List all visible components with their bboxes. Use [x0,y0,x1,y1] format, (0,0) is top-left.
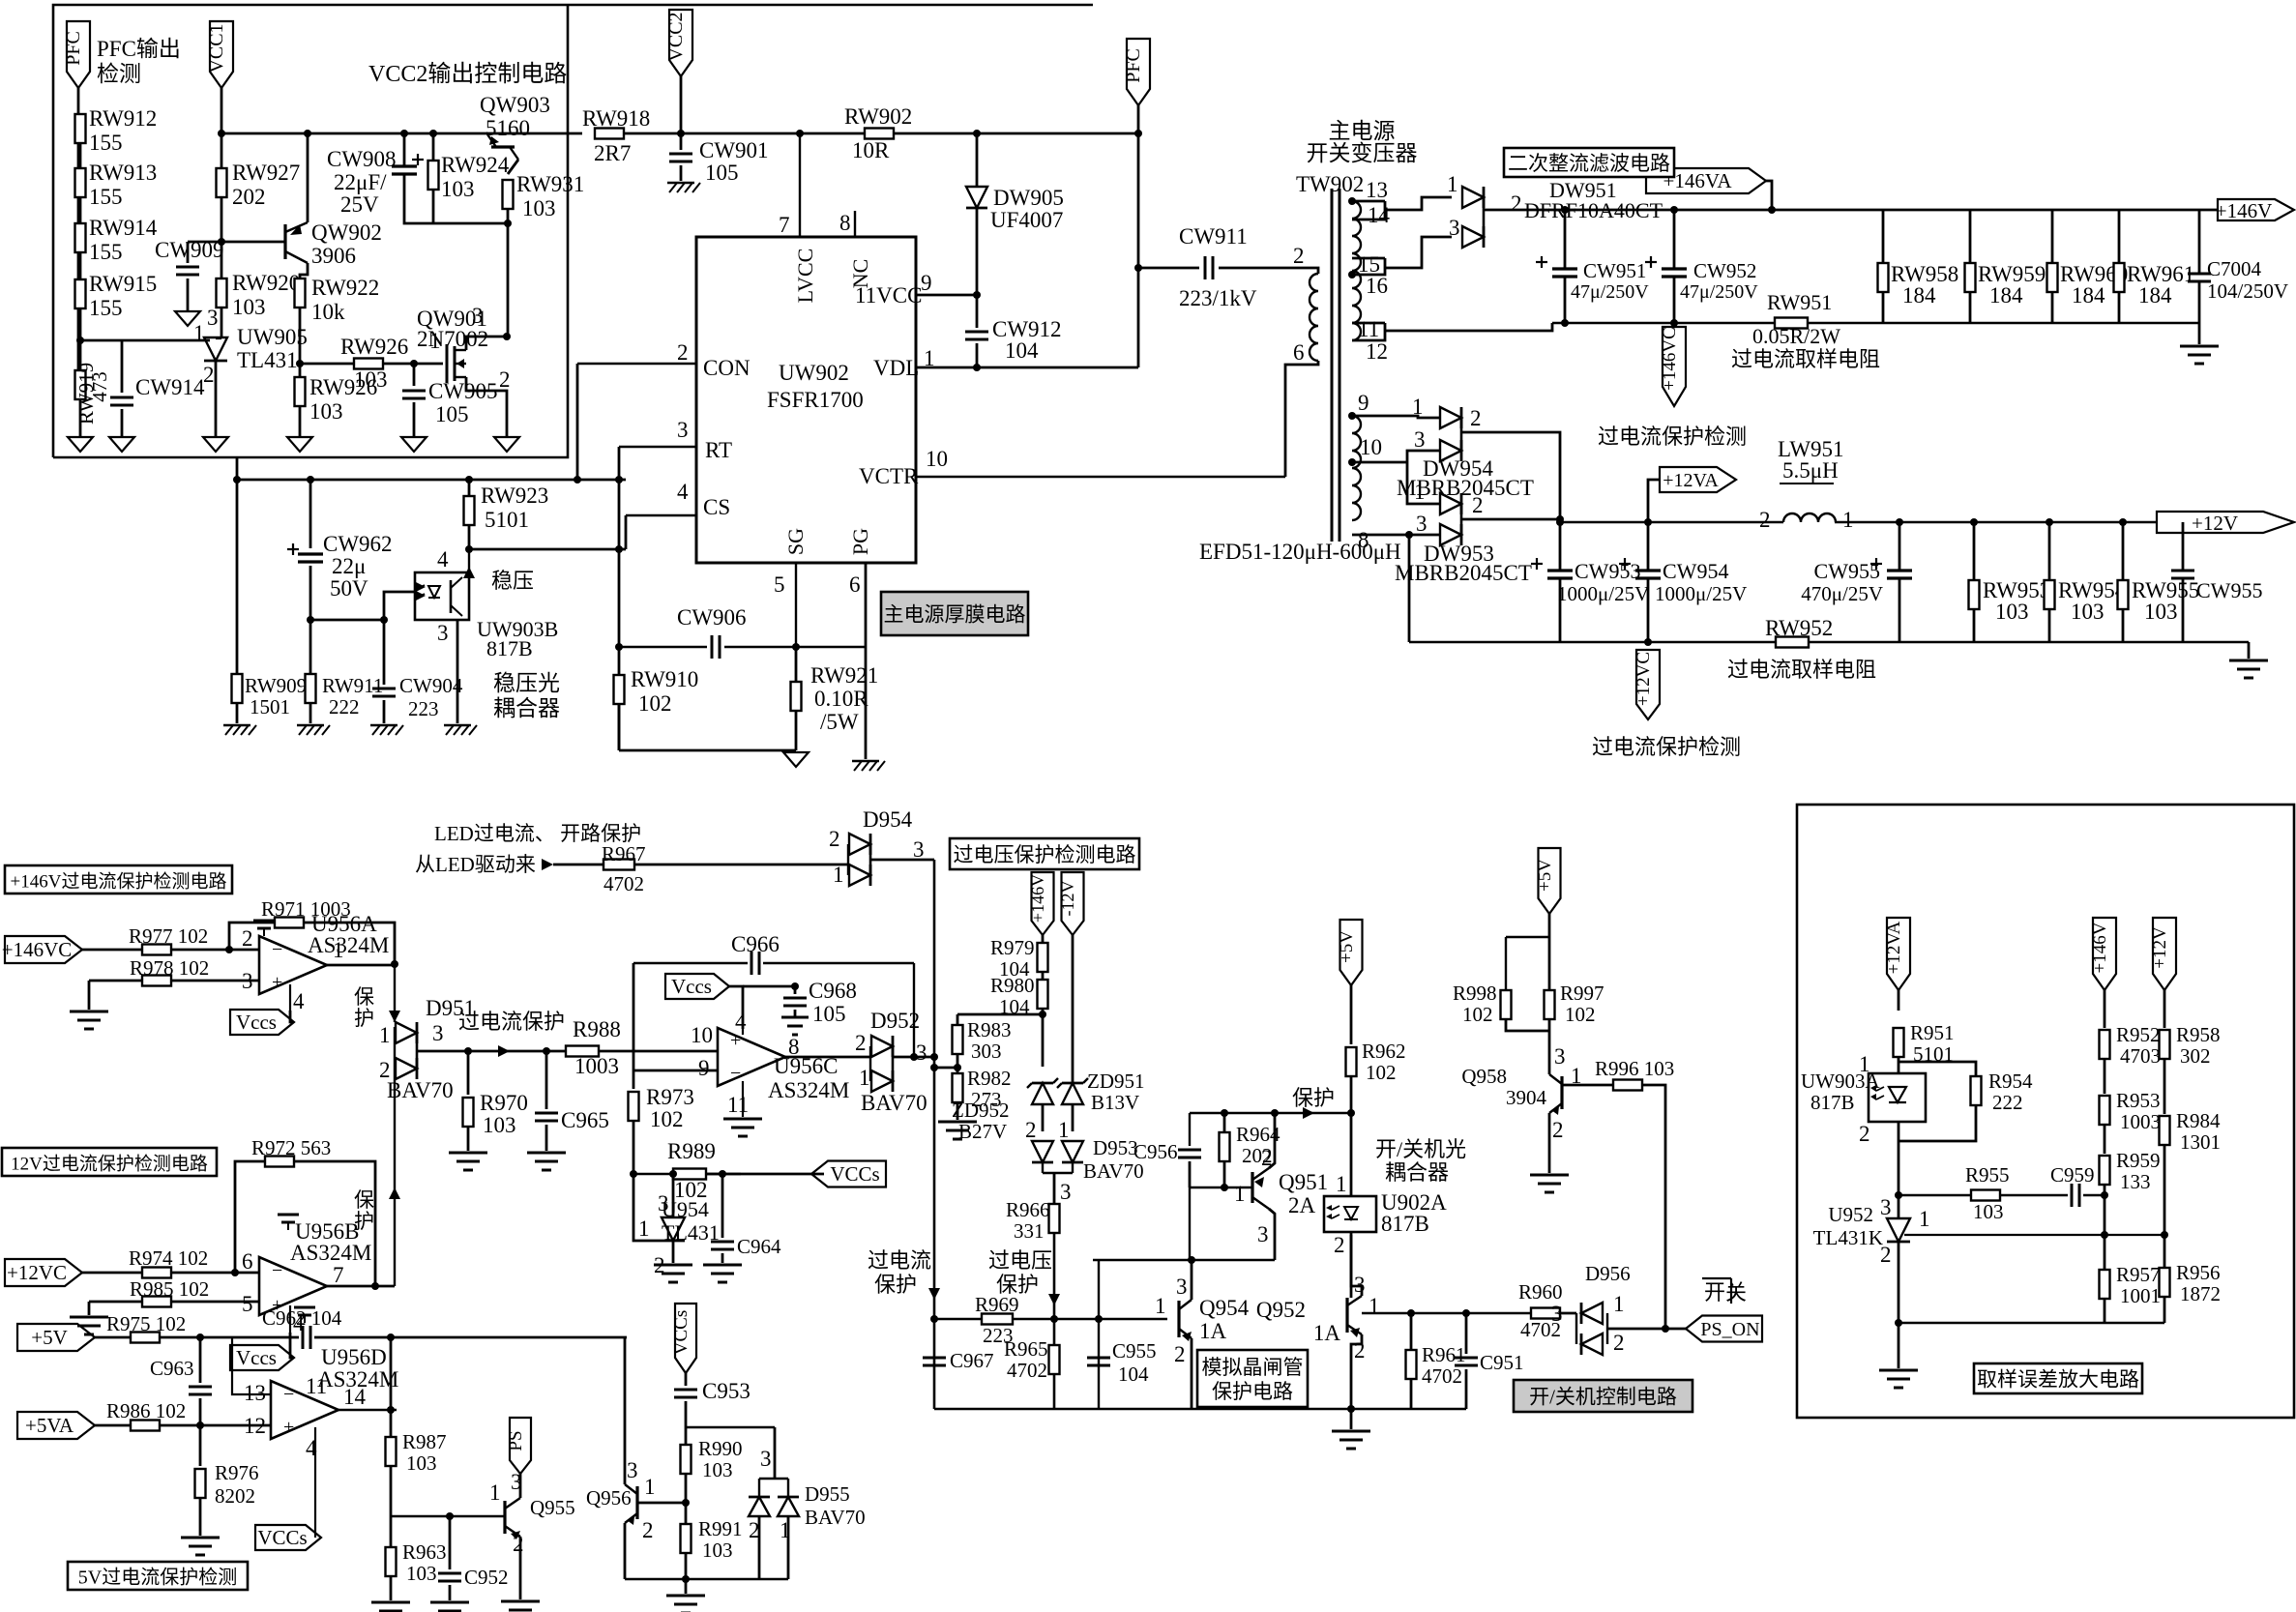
svg-text:ZD951: ZD951 [1087,1070,1145,1093]
wire RW955 top [2122,522,2125,580]
wire C7004 top [2198,210,2201,274]
resistor R996 [1613,1080,1642,1091]
resistor RW918 [595,129,624,139]
node +12VA tap [1644,518,1652,526]
wire Q955 emitter [519,1537,522,1599]
node QW901 drain [503,333,511,340]
resistor RW954 [2045,580,2055,609]
wire Q958 base to R996 [1562,1084,1612,1087]
wire R991 bottom [685,1553,688,1579]
ground UW905 [203,437,228,452]
secondary winding bottom TW902 [1352,416,1361,520]
svg-text:ZD952: ZD952 [952,1099,1010,1122]
wire R987 to base [390,1466,393,1516]
primary winding TW902 [1310,274,1318,361]
svg-text:2: 2 [1470,406,1482,430]
flag +12VA sample [1887,918,1910,990]
wire +12VA sample stem [1898,989,1900,1011]
resistor R961 [1406,1350,1417,1379]
node R987 top rail [387,1334,395,1341]
wire Vccs C to pin4 [729,986,743,1029]
resistor RW959 [1965,263,1976,292]
svg-text:12: 12 [244,1414,266,1438]
svg-text:过电压: 过电压 [988,1248,1052,1273]
transistor Q955 [503,1501,506,1534]
mosfet QW901 2N7002 [446,344,449,383]
svg-text:4702: 4702 [1007,1359,1047,1382]
wire C966 fb [633,962,748,964]
svg-text:3: 3 [677,418,689,442]
ground SG [783,752,809,767]
ground R982 [938,1121,977,1124]
svg-text:CW901: CW901 [699,138,769,162]
node R972 out [371,1282,379,1290]
svg-text:10: 10 [691,1023,713,1047]
resistor R970 [463,1098,474,1127]
svg-text:1: 1 [1842,508,1854,532]
node CW911 [1134,264,1142,272]
diode D953 b [1062,1141,1083,1162]
wire pin9 11VCC [916,294,977,297]
resistor RW952 [1776,637,1809,648]
svg-text:RW918: RW918 [582,106,650,131]
svg-text:VCC2: VCC2 [665,12,687,61]
resistor RW914 [75,223,86,252]
wire C953 node [686,1426,775,1428]
flag +146VA [1646,168,1766,193]
power bars U956D [294,1306,315,1309]
node R972 left [231,1269,239,1276]
wire LED return [310,619,384,622]
wire out D rail link [390,1337,393,1410]
wire CW955b top [2182,522,2185,571]
wire D951 out [417,1050,464,1053]
wire R952-R953 [2104,1059,2106,1094]
wire Q954 emitter [1191,1338,1193,1409]
flag PFC [67,21,90,88]
svg-text:3: 3 [432,1021,444,1045]
node PS_ON [1662,1325,1669,1333]
svg-text:QW902: QW902 [311,220,382,245]
wire RW958 bot [1882,292,1885,323]
svg-text:C953: C953 [702,1379,751,1403]
svg-text:DW905: DW905 [993,186,1064,210]
node R961 [1407,1309,1415,1317]
ground CW909 [175,311,200,326]
wire R975 to C962 [160,1336,299,1339]
svg-text:R980: R980 [990,974,1035,997]
svg-text:1: 1 [1414,480,1426,504]
svg-text:C968: C968 [809,979,857,1003]
svg-text:R996 103: R996 103 [1595,1057,1674,1080]
node +12VC [1644,638,1652,646]
diode D951 b [396,1058,417,1079]
svg-text:22μ: 22μ [332,554,366,578]
svg-text:302: 302 [2180,1044,2211,1068]
svg-text:2A: 2A [1288,1193,1316,1217]
flag Vccs B [230,1345,294,1370]
svg-text:开关: 开关 [1704,1280,1747,1304]
svg-text:C966: C966 [731,932,780,956]
wire Q952 emitter out [1362,1312,1531,1314]
diode D952 b [871,1070,893,1092]
svg-text:U956D: U956D [321,1345,387,1369]
svg-text:223: 223 [983,1324,1014,1347]
wire R967 to D954 [634,864,848,866]
svg-text:3: 3 [916,1040,927,1065]
node C968 [791,982,799,990]
wire RW953 top [1973,522,1976,580]
svg-text:102: 102 [638,691,672,716]
op-amp U956B [259,1257,327,1315]
flag +12VC input [5,1259,82,1286]
U952 TL431K [1887,1218,1910,1242]
wire Q951 emitter [1269,1113,1275,1168]
svg-text:保护电路: 保护电路 [1212,1380,1293,1403]
svg-text:RW923: RW923 [481,484,548,508]
wire CS down [625,515,628,549]
resistor RW926 [354,359,383,369]
svg-text:103: 103 [2071,600,2105,624]
svg-text:LVCC: LVCC [793,249,817,304]
svg-text:1: 1 [489,1480,501,1505]
wire thyristor cross line [1093,1259,1275,1261]
capacitor C956 [1178,1149,1201,1152]
flag +12VC [1636,650,1660,719]
zener ZD951 B13V [1062,1083,1083,1104]
node CW905 [410,360,418,367]
svg-text:R966: R966 [1006,1198,1050,1221]
resistor RW953 [1969,580,1980,609]
bracket D956 [1575,1313,1577,1344]
node rail Q952 [1347,1405,1355,1413]
wire C962 to Q956 [314,1336,627,1339]
node CW904 line [307,616,314,624]
svg-text:VCC2输出控制电路: VCC2输出控制电路 [368,61,567,87]
wire CW954 top [1647,522,1650,571]
resistor RW915 [75,279,86,308]
resistor RW922 [295,278,306,308]
svg-text:222: 222 [1992,1091,2023,1114]
svg-text:R959: R959 [2116,1149,2161,1172]
svg-text:Q952: Q952 [1256,1298,1306,1322]
svg-text:R974 102: R974 102 [129,1246,208,1270]
optocoupler U902A 817B [1324,1196,1376,1232]
resistor R990 [681,1445,692,1474]
svg-text:3: 3 [472,304,484,328]
wire +5V to R975 [95,1336,131,1339]
node CW904 top [380,616,388,624]
resistor R954 [1971,1076,1982,1105]
svg-text:VCC1: VCC1 [206,23,227,73]
svg-text:6: 6 [242,1249,253,1274]
capacitor C951 [1455,1357,1478,1360]
wire CW955a top [1899,522,1901,571]
svg-text:RW902: RW902 [844,104,912,129]
resistor R960 [1531,1308,1560,1319]
capacitor C966 [751,952,753,975]
resistor RW920 [217,278,227,308]
node CON bus [574,476,581,484]
wire bus OCP [933,860,936,1409]
wire DW905 cathode [976,208,979,295]
U954 TL431 [662,1217,685,1241]
svg-text:47μ/250V: 47μ/250V [1680,281,1758,303]
svg-text:6: 6 [1293,340,1305,365]
resistor R952 [2100,1030,2110,1059]
resistor R967 [603,860,634,870]
node QW902 emitter rail [304,130,311,137]
wire Vccs B stub [290,1333,294,1358]
wire U902A pin2 [1350,1232,1353,1298]
svg-text:14: 14 [1368,203,1391,227]
box label 12V过电流保护检测电路 [2,1148,217,1176]
svg-text:PFC输出: PFC输出 [97,37,181,61]
resistor R974 [142,1268,171,1278]
svg-text:1: 1 [429,329,441,353]
svg-text:Q958: Q958 [1461,1065,1507,1088]
svg-text:CW952: CW952 [1693,259,1756,282]
wire U956A out [327,964,395,967]
svg-text:105: 105 [435,402,469,426]
svg-text:133: 133 [2120,1170,2151,1193]
wire DW954 cathode [1460,418,1463,451]
node bus OCP R969 [930,1315,938,1323]
svg-text:2: 2 [1025,1118,1037,1142]
resistor RW960 [2047,263,2058,292]
wire U956C pin4 [742,1029,744,1035]
node D952 bus [930,1053,938,1061]
svg-text:6: 6 [849,572,861,597]
diode DW954 a [1440,407,1461,428]
zener ZD952 B27V [1032,1083,1053,1104]
wire DW953 a anode [1407,462,1440,504]
resistor RW927 [217,168,227,197]
resistor R969 [982,1314,1013,1325]
svg-text:CW954: CW954 [1663,559,1728,583]
power bars U956A [253,920,275,923]
svg-text:7: 7 [779,213,790,237]
ground R963 [371,1601,410,1604]
svg-text:102: 102 [1462,1003,1493,1026]
wire CW953 top [1559,522,1562,571]
diode D956 b [1581,1334,1603,1355]
svg-text:模拟晶闸管: 模拟晶闸管 [1202,1356,1304,1379]
svg-text:223: 223 [408,697,439,720]
svg-text:稳压光: 稳压光 [493,671,560,695]
wire D955 a anode [758,1516,761,1579]
wire pin14 [1352,201,1385,220]
node RT bus [615,476,623,484]
resistor RW926b [295,377,306,406]
wire R977 to U956A [171,949,259,952]
node divider tap [2101,1191,2108,1199]
op-amp U956D [271,1381,339,1439]
svg-text:TL431K: TL431K [1813,1226,1883,1249]
svg-text:开关变压器: 开关变压器 [1307,141,1418,165]
wire +5VA to R986 [95,1424,131,1427]
svg-text:R998: R998 [1453,982,1497,1005]
svg-text:1A: 1A [1199,1319,1227,1343]
svg-text:C965: C965 [561,1108,609,1132]
diode DW951 b [1462,226,1484,248]
wire CW912 stem [976,295,979,328]
wire R957 bottom [2104,1299,2106,1323]
svg-text:1: 1 [859,1066,870,1090]
wire D956 out [1607,1328,1687,1331]
node RW954 [2046,518,2053,526]
wire RW954 top [2048,522,2051,580]
svg-text:C959: C959 [2050,1163,2095,1187]
wire R955 C959 line [1899,1194,1971,1196]
resistor R987 [386,1437,397,1466]
resistor RW958 [1878,263,1889,292]
svg-text:1872: 1872 [2180,1282,2221,1305]
capacitor CW951 [1552,267,1577,270]
wire CW914 stem [121,340,124,393]
svg-text:CW962: CW962 [323,532,393,556]
svg-text:Vccs: Vccs [236,1346,277,1369]
svg-text:103: 103 [441,177,475,201]
wire QW902 base line [188,241,285,244]
wire primary pin6 [1301,361,1318,365]
capacitor C959 [2071,1184,2074,1207]
transistor Q958 [1560,1076,1563,1109]
node CW951 rail2 [1561,319,1569,327]
svg-text:Q956: Q956 [586,1486,632,1509]
wire D952 out [893,1056,934,1059]
capacitor CW953 [1547,569,1573,572]
svg-text:C967: C967 [950,1349,994,1372]
svg-text:过电流保护: 过电流保护 [458,1010,565,1034]
svg-text:9: 9 [1358,391,1369,415]
svg-text:473: 473 [88,371,111,402]
node tap16 [1348,271,1356,278]
svg-text:B27V: B27V [958,1120,1007,1143]
wire CW911 left [1138,267,1199,270]
wire Q958 emitter gnd [1548,1113,1551,1173]
wire CW904 gnd [383,700,386,723]
wire +12VC to R974 [82,1272,142,1275]
node bottom rail [682,1575,690,1583]
svg-text:R951: R951 [1910,1021,1955,1044]
box label 模拟晶闸管保护电路 [1197,1350,1308,1407]
wire D954 out [870,859,934,862]
svg-text:保: 保 [354,985,374,1009]
node tap10 [1348,458,1356,466]
ground RW919 [68,437,93,452]
ground RW926b [287,437,312,452]
svg-text:RW922: RW922 [311,276,379,300]
wire CW954 bottom [1647,578,1650,642]
svg-text:−: − [272,1260,282,1281]
wire R978 input [89,980,142,982]
svg-text:1000μ/25V: 1000μ/25V [1557,582,1649,605]
svg-text:R954: R954 [1988,1070,2033,1093]
node out D [387,1406,395,1414]
svg-text:主电源: 主电源 [1329,119,1396,143]
transformer core TW902 [1331,189,1334,542]
wire bus to R982 [934,1067,957,1070]
svg-text:2: 2 [1613,1331,1625,1355]
wire R983-R982 [957,1054,959,1073]
wire Q956 emitter [624,1523,627,1579]
svg-text:CW906: CW906 [677,605,747,630]
svg-text:RW951: RW951 [1767,290,1832,314]
flag +5V right [1539,848,1561,914]
svg-text:5101: 5101 [485,508,529,532]
resistor R962 [1346,1047,1357,1076]
svg-text:CON: CON [703,356,751,380]
wire TL431 ref [633,1174,662,1241]
wire R962 to U902A [1350,1076,1353,1196]
wire U956D pin13 from rail [232,1337,271,1394]
svg-text:RW920: RW920 [232,271,300,295]
resistor RW955 [2118,580,2129,609]
node RW923 top [465,545,473,553]
wire sample bottom rail [1899,1322,2164,1324]
diode DW954 b [1440,440,1461,461]
wire +5V right stem [1548,914,1551,1074]
rail +12V [1560,521,1783,523]
wire R953-R959 [2104,1125,2106,1154]
wire Q951 left branch [1189,1113,1191,1146]
svg-text:R978 102: R978 102 [130,956,209,980]
svg-text:R991: R991 [698,1517,743,1540]
wire CW912 bottom [976,343,979,367]
wire 12V gnd [2248,642,2251,659]
wire pin6 to VCTR [1285,365,1301,477]
svg-text:1: 1 [1859,1052,1870,1076]
wire R982 gnd [957,1102,959,1120]
wire R970 gnd [467,1127,470,1151]
wire RW927-RW920 [221,197,223,278]
wire QW903 base chain [507,223,510,337]
svg-text:3904: 3904 [1506,1086,1547,1109]
wire QW902 collector [300,263,308,278]
resistor RW910 [614,675,625,704]
wire RW961 top [2118,210,2121,263]
resistor RW902 [865,129,894,139]
svg-text:303: 303 [971,1040,1002,1063]
svg-text:3: 3 [1449,216,1460,240]
svg-text:+146V: +146V [2216,199,2273,222]
svg-text:−: − [730,1063,741,1084]
wire R987 chain [390,1410,393,1437]
wire R979-R980 [1042,972,1045,980]
wire Q951 net top [1190,1112,1351,1114]
resistor R955 [1971,1190,2000,1201]
ground U954 [654,1264,692,1267]
diode D951 a [396,1022,417,1043]
resistor R976 [195,1469,206,1498]
svg-text:2: 2 [242,926,253,951]
wire +12VA stem [1648,480,1660,522]
node CW953 [1556,518,1564,526]
resistor RW919 [75,370,86,399]
wire D956 bracket right [1606,1313,1608,1344]
diode D952 a [871,1036,893,1057]
svg-text:+12VA: +12VA [1884,921,1904,974]
flag -12V [1062,872,1084,935]
wire CW911 right [1219,267,1304,270]
bracket D955 [759,1478,788,1480]
svg-text:1003: 1003 [2120,1110,2161,1133]
capacitor C955 [1087,1357,1110,1360]
svg-text:过电流取样电阻: 过电流取样电阻 [1731,347,1880,371]
box label 主电源厚膜电路 [881,592,1028,635]
wire CW908 top [403,133,406,166]
